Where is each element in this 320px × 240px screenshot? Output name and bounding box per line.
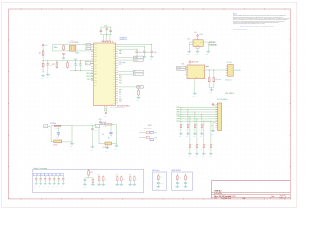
- svg-text:X1 USB: X1 USB: [227, 62, 232, 64]
- capacitor C13: [79, 61, 81, 62]
- svg-text:UVCC: UVCC: [134, 60, 138, 62]
- svg-text:GND: GND: [41, 78, 44, 80]
- supply +5V arrow: [197, 36, 199, 40]
- resistor R10: [138, 88, 140, 89]
- svg-text:+5V: +5V: [194, 32, 197, 34]
- svg-text:C19: C19: [129, 174, 132, 176]
- crystal Q1 body: [69, 46, 76, 52]
- svg-text:USB_SHIELD: USB_SHIELD: [225, 93, 234, 95]
- resistor R3: [56, 61, 58, 63]
- svg-text:100n: 100n: [146, 52, 149, 54]
- svg-text:PD1: PD1: [119, 82, 122, 84]
- capacitor C15: [92, 126, 94, 128]
- svg-text:22p: 22p: [95, 129, 97, 131]
- svg-text:GND: GND: [70, 146, 73, 148]
- svg-text:RST: RST: [86, 63, 89, 65]
- svg-text:8MHz: 8MHz: [54, 47, 58, 49]
- capacitor chain x144.3: [143, 47, 145, 51]
- IC3 lower left pins: [186, 71, 188, 73]
- svg-text:PD4: PD4: [94, 61, 97, 63]
- svg-text:shared w. SCK: shared w. SCK: [144, 128, 152, 130]
- IC U1 left pins: [91, 44, 94, 46]
- svg-text:PB2: PB2: [94, 79, 97, 81]
- title block sheet cell: [269, 197, 271, 199]
- IC U1 bottom pins: [104, 106, 106, 109]
- label frame USB D-: [177, 66, 186, 68]
- row1 resistor R13: [194, 112, 195, 113]
- VCC rail top: [101, 26, 112, 28]
- svg-text:10u: 10u: [105, 179, 107, 181]
- svg-text:1.40: 1.40: [214, 198, 217, 200]
- svg-text:XT1: XT1: [94, 47, 97, 49]
- label frame JP3a: [133, 70, 143, 73]
- svg-text:PD0: PD0: [119, 80, 122, 82]
- wire lower: [70, 70, 93, 72]
- LED D2 row1: [139, 132, 146, 134]
- svg-text:GND: GND: [186, 136, 189, 138]
- svg-text:VCC: VCC: [45, 45, 48, 47]
- wire loopA to loopB: [72, 125, 99, 127]
- svg-text:1/1: 1/1: [281, 197, 283, 199]
- svg-text:PD6: PD6: [94, 66, 97, 68]
- info box 3 outline: [172, 172, 193, 190]
- svg-text:LED1: LED1: [148, 125, 152, 127]
- ground C15: [92, 146, 94, 147]
- svg-text:OUT: OUT: [200, 42, 203, 44]
- wire UVCC: [118, 46, 144, 48]
- junction reset: [43, 60, 44, 61]
- svg-text:GND: GND: [187, 54, 190, 56]
- svg-text:Q2 32k: Q2 32k: [53, 144, 58, 146]
- box1 transistor cluster: [88, 168, 90, 171]
- resistor R2 1M: [63, 45, 65, 46]
- wires to label frames 1: [118, 56, 133, 58]
- svg-text:GND: GND: [202, 156, 205, 158]
- svg-text:GND: GND: [150, 59, 153, 61]
- svg-text:PC2: PC2: [94, 44, 97, 46]
- box1 decoupling caps: [35, 176, 37, 179]
- svg-text:GND: GND: [105, 150, 108, 152]
- svg-text:MCP1825: MCP1825: [209, 42, 216, 44]
- ground crystal: [63, 57, 65, 58]
- label frame X-D-: [86, 47, 91, 49]
- svg-text:HWB: HWB: [138, 87, 141, 89]
- SV1 pins: [215, 104, 217, 106]
- svg-text:HWB / RESET: HWB / RESET: [172, 170, 181, 172]
- svg-text:GND: GND: [195, 77, 198, 79]
- svg-text:PD6: PD6: [119, 99, 122, 101]
- info box 2 outline: [152, 172, 166, 190]
- IC U1 right pins: [116, 43, 119, 45]
- svg-text:XT2: XT2: [94, 49, 97, 51]
- svg-text:PD5: PD5: [155, 133, 158, 135]
- ground loop B bottom: [107, 144, 109, 147]
- svg-text:PB2: PB2: [177, 111, 180, 113]
- title block outline: [210, 181, 212, 199]
- svg-text:T0: T0: [119, 94, 121, 96]
- svg-text:C15: C15: [98, 174, 101, 176]
- svg-text:PD1: PD1: [94, 54, 97, 56]
- supply arrow L1: [106, 28, 108, 30]
- svg-text:(USB-DFU): (USB-DFU): [120, 39, 128, 41]
- frame section marks left/right: [8, 39, 9, 41]
- svg-text:PC5: PC5: [119, 78, 122, 80]
- svg-text:GND: GND: [46, 77, 49, 79]
- wires to label frames 2: [118, 70, 133, 72]
- svg-text:04.07.2013: 04.07.2013: [228, 196, 236, 198]
- svg-text:Note:: Note:: [233, 12, 238, 15]
- svg-text:GND: GND: [179, 136, 182, 138]
- svg-text:GND: GND: [114, 149, 117, 151]
- label frame JP2b: [133, 59, 143, 62]
- svg-text:USB Ao: USB Ao: [214, 189, 222, 192]
- svg-text:R19: R19: [90, 172, 93, 174]
- svg-text:GND: GND: [193, 136, 196, 138]
- svg-text:VO: VO: [203, 70, 205, 72]
- svg-text:D-/D+ pair: D-/D+ pair: [119, 62, 126, 64]
- crystal Q3 body: [105, 142, 112, 145]
- box3 chain 2: [185, 173, 187, 175]
- svg-text:PB2_SCK: PB2_SCK: [87, 79, 93, 81]
- svg-text:C17: C17: [116, 174, 119, 176]
- IC U1 top pins: [102, 41, 104, 44]
- svg-text:MISO: MISO: [177, 115, 180, 117]
- svg-text:32.768kHz: 32.768kHz: [50, 123, 57, 125]
- box1 pair cluster 3: [129, 175, 131, 176]
- svg-text:IC2: IC2: [188, 38, 191, 40]
- IC2 left pins to ground: [189, 41, 193, 43]
- svg-text:PB7: PB7: [94, 71, 97, 73]
- svg-text:GND: GND: [156, 188, 159, 190]
- junction C15: [92, 125, 93, 126]
- svg-text:VBUS 5V0: VBUS 5V0: [191, 61, 198, 63]
- capacitor C11 on reset: [47, 61, 49, 64]
- svg-text:PC7: PC7: [119, 64, 122, 66]
- svg-text:GND: GND: [196, 45, 199, 47]
- svg-text:value: value: [206, 66, 209, 68]
- svg-text:PD0: PD0: [94, 51, 97, 53]
- svg-text:PC4: PC4: [119, 75, 122, 77]
- row2 resistor R16: [196, 118, 197, 119]
- svg-text:PB4_MISO: PB4_MISO: [87, 73, 94, 75]
- IC2 bottom pins: [195, 46, 197, 48]
- box1 pair cluster 2: [116, 175, 118, 176]
- svg-text:PD6: PD6: [155, 137, 158, 139]
- label frame TOSC: [44, 125, 48, 128]
- resistor R5 horizontal: [54, 125, 61, 127]
- svg-text:D+: D+: [134, 74, 136, 76]
- svg-text:TC1: TC1: [44, 126, 47, 128]
- row1 resistor R14: [201, 114, 202, 115]
- wire VCC bottom rail: [101, 34, 112, 36]
- row1 resistor R11: [180, 107, 181, 108]
- svg-text:GND: GND: [136, 100, 139, 102]
- box1 blue label row: [33, 173, 36, 175]
- svg-text:GND: GND: [195, 156, 198, 158]
- svg-text:R8: R8: [179, 177, 181, 179]
- junction: [106, 34, 107, 35]
- SV1 ground drop: [213, 122, 215, 124]
- label frame XTAL: [95, 124, 99, 127]
- IC U1 AT90USB body: [94, 43, 116, 106]
- svg-text:CL 12.5p: CL 12.5p: [54, 128, 59, 130]
- svg-text:T1: T1: [119, 97, 121, 99]
- box2 chain: [157, 173, 159, 175]
- label frame RESET: [85, 62, 90, 65]
- svg-text:PB0: PB0: [94, 73, 97, 75]
- svg-text:16MHz: 16MHz: [75, 52, 80, 54]
- capacitor C16 mid: [110, 125, 112, 132]
- junctions for leds: [209, 69, 210, 70]
- outer page border: [2, 2, 297, 207]
- resistor R1 pullup: [42, 51, 44, 55]
- wire bundle to SV1: [176, 106, 217, 108]
- led D4: [208, 70, 210, 77]
- supply VCC left chain: [42, 44, 44, 46]
- svg-text:SCK: SCK: [177, 120, 180, 122]
- svg-text:PD5: PD5: [94, 63, 97, 65]
- row1 resistor R12: [187, 109, 188, 110]
- svg-text:GND: GND: [195, 54, 198, 56]
- IC3 bottom pin ground: [194, 79, 196, 93]
- svg-text:100n: 100n: [83, 187, 86, 189]
- wire crystal left join: [51, 45, 53, 51]
- svg-text:www.example.org/usbavr: www.example.org/usbavr: [233, 29, 248, 31]
- wire XTAL1: [52, 44, 93, 46]
- wires to IC top pins: [102, 35, 104, 41]
- svg-text:PB1: PB1: [94, 76, 97, 78]
- svg-text:see figure 2: see figure 2: [120, 37, 128, 39]
- svg-text:GND: GND: [209, 156, 212, 158]
- svg-text:GND: GND: [211, 133, 214, 135]
- svg-text:12p: 12p: [56, 137, 58, 139]
- svg-text:10u: 10u: [123, 179, 125, 181]
- svg-text:PD3: PD3: [94, 59, 97, 61]
- svg-text:CL 18p: CL 18p: [103, 126, 107, 128]
- svg-text:PD7: PD7: [94, 68, 97, 70]
- svg-text:GND: GND: [193, 96, 196, 98]
- svg-text:INT: INT: [119, 92, 121, 94]
- svg-text:PB0: PB0: [177, 106, 180, 108]
- ground for R10: [138, 96, 140, 97]
- box1 pair cluster 1: [98, 175, 100, 176]
- svg-text:MINI-USB: MINI-USB: [234, 70, 240, 72]
- capacitor C8: [100, 27, 102, 30]
- resistor R4: [67, 61, 69, 63]
- frame section marks top/bottom: [20, 8, 22, 9]
- ground C11: [47, 73, 49, 74]
- svg-text:10k: 10k: [39, 53, 41, 55]
- capacitor chain x151.7: [151, 44, 153, 51]
- label frame USB D+: [177, 68, 186, 70]
- X1 pins: [226, 65, 228, 67]
- voltage regulator IC2 body: [193, 40, 203, 47]
- wires into IC3: [185, 66, 187, 68]
- info box 1 outline: [33, 169, 144, 192]
- resistor R6 horizontal: [105, 124, 112, 126]
- svg-text:R6 1M: R6 1M: [101, 123, 105, 125]
- ground left chain: [42, 74, 44, 75]
- svg-text:GND: GND: [206, 54, 209, 56]
- capacitor C10 below R2: [62, 52, 65, 54]
- svg-text:PB3: PB3: [177, 113, 180, 115]
- box3 chain 1: [176, 173, 178, 175]
- label frame JP3b: [133, 73, 143, 76]
- capacitor C12: [75, 61, 77, 62]
- wire AVCC: [118, 43, 152, 45]
- svg-text:Supply + Decoupling: Supply + Decoupling: [33, 168, 47, 170]
- supply VBUS arrow: [189, 63, 191, 65]
- row2 resistor R15: [189, 116, 190, 117]
- svg-text:R9: R9: [187, 177, 189, 179]
- led join ground: [209, 87, 214, 89]
- ISP connector SV1 body: [218, 103, 222, 131]
- svg-text:100n: 100n: [160, 183, 163, 185]
- svg-text:18p: 18p: [102, 134, 104, 136]
- loop B outline wires: [99, 125, 117, 144]
- svg-text:PB3: PB3: [94, 82, 97, 84]
- svg-text:IC3: IC3: [182, 64, 185, 66]
- USB connector X1 body: [228, 65, 234, 77]
- ground loop B right: [116, 144, 118, 145]
- svg-text:100n: 100n: [154, 52, 157, 54]
- svg-text:PD7: PD7: [119, 101, 122, 103]
- svg-text:XT: XT: [96, 126, 98, 128]
- svg-text:PD2: PD2: [94, 56, 97, 58]
- diode D1: [42, 61, 44, 63]
- svg-text:PB1: PB1: [177, 108, 180, 110]
- row2 resistor R17: [203, 121, 204, 122]
- svg-text:PB1: PB1: [119, 53, 122, 55]
- label frame X-D+: [86, 44, 91, 46]
- svg-text:USB_P: USB_P: [177, 69, 181, 71]
- capacitor chain x137.0: [136, 49, 138, 51]
- svg-text:GND: GND: [209, 92, 212, 94]
- wire IC3 to usb connector: [205, 69, 228, 71]
- svg-text:ucap: ucap: [110, 104, 113, 106]
- ground loop A: [71, 142, 73, 143]
- led D5: [213, 70, 215, 77]
- USB IC3 body: [187, 65, 205, 79]
- SV1 supply arrow: [212, 103, 214, 105]
- svg-text:RST: RST: [52, 64, 55, 66]
- loop A outline wires: [51, 126, 72, 142]
- svg-text:GND: GND: [200, 136, 203, 138]
- svg-text:Q1 CSTCE16M: Q1 CSTCE16M: [69, 42, 78, 44]
- svg-text:GND: GND: [61, 60, 64, 62]
- capacitor C14 blue mid: [57, 127, 59, 133]
- svg-text:VBUS: VBUS: [199, 34, 203, 36]
- svg-text:32005-201: 32005-201: [225, 79, 232, 81]
- svg-text:PB3_MOSI: PB3_MOSI: [87, 76, 94, 78]
- svg-text:100n: 100n: [139, 52, 142, 54]
- IC bottom ground: [105, 107, 107, 110]
- label frame JP2a: [133, 56, 143, 59]
- svg-text:18p: 18p: [108, 137, 110, 139]
- svg-text:PB4: PB4: [94, 85, 97, 87]
- wire XTAL2: [52, 50, 93, 52]
- IC2 right pin to ground: [203, 41, 208, 43]
- svg-text:GND: GND: [90, 149, 93, 151]
- capacitor C9: [110, 27, 112, 30]
- svg-text:PB0: PB0: [119, 51, 122, 53]
- LED D3 row2: [139, 137, 146, 139]
- wire VCC2: [118, 48, 137, 50]
- svg-text:GND: GND: [188, 156, 191, 158]
- test point TP1: [118, 86, 137, 88]
- row2 resistor R18: [210, 121, 211, 122]
- wire RESET: [43, 60, 94, 62]
- crystal Q2 body: [54, 140, 62, 143]
- inner drawing frame: [9, 9, 291, 199]
